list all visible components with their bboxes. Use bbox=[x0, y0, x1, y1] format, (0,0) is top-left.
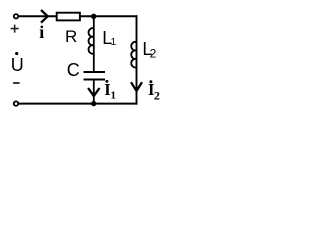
svg-text:R: R bbox=[65, 27, 77, 46]
wire bottom bbox=[19, 103, 138, 105]
wire middle branch bbox=[93, 16, 95, 103]
terminal + (top-left) bbox=[14, 14, 18, 18]
terminal - (bottom-left) bbox=[14, 101, 18, 105]
arrow I2 (down, on right branch) bbox=[131, 82, 142, 91]
node bottom junction dot bbox=[91, 101, 96, 106]
wire top bbox=[19, 15, 138, 17]
wire right vertical bbox=[136, 15, 138, 104]
node top junction dot bbox=[91, 14, 96, 19]
svg-text:U: U bbox=[11, 55, 24, 75]
svg-text:2: 2 bbox=[154, 88, 160, 102]
svg-text:C: C bbox=[67, 60, 80, 80]
capacitor C plates bbox=[84, 72, 106, 80]
resistor R bbox=[57, 13, 80, 21]
inductor L1 coil bbox=[89, 28, 94, 54]
svg-text:1: 1 bbox=[111, 37, 117, 48]
current arrow i bbox=[41, 10, 48, 23]
svg-text:1: 1 bbox=[111, 89, 117, 101]
svg-text:i: i bbox=[39, 22, 44, 42]
arrow I1 (down, on middle branch) bbox=[88, 88, 99, 96]
label - bbox=[13, 82, 20, 84]
inductor L2 coil bbox=[131, 42, 136, 68]
label + bbox=[11, 25, 19, 33]
svg-text:2: 2 bbox=[150, 47, 157, 61]
